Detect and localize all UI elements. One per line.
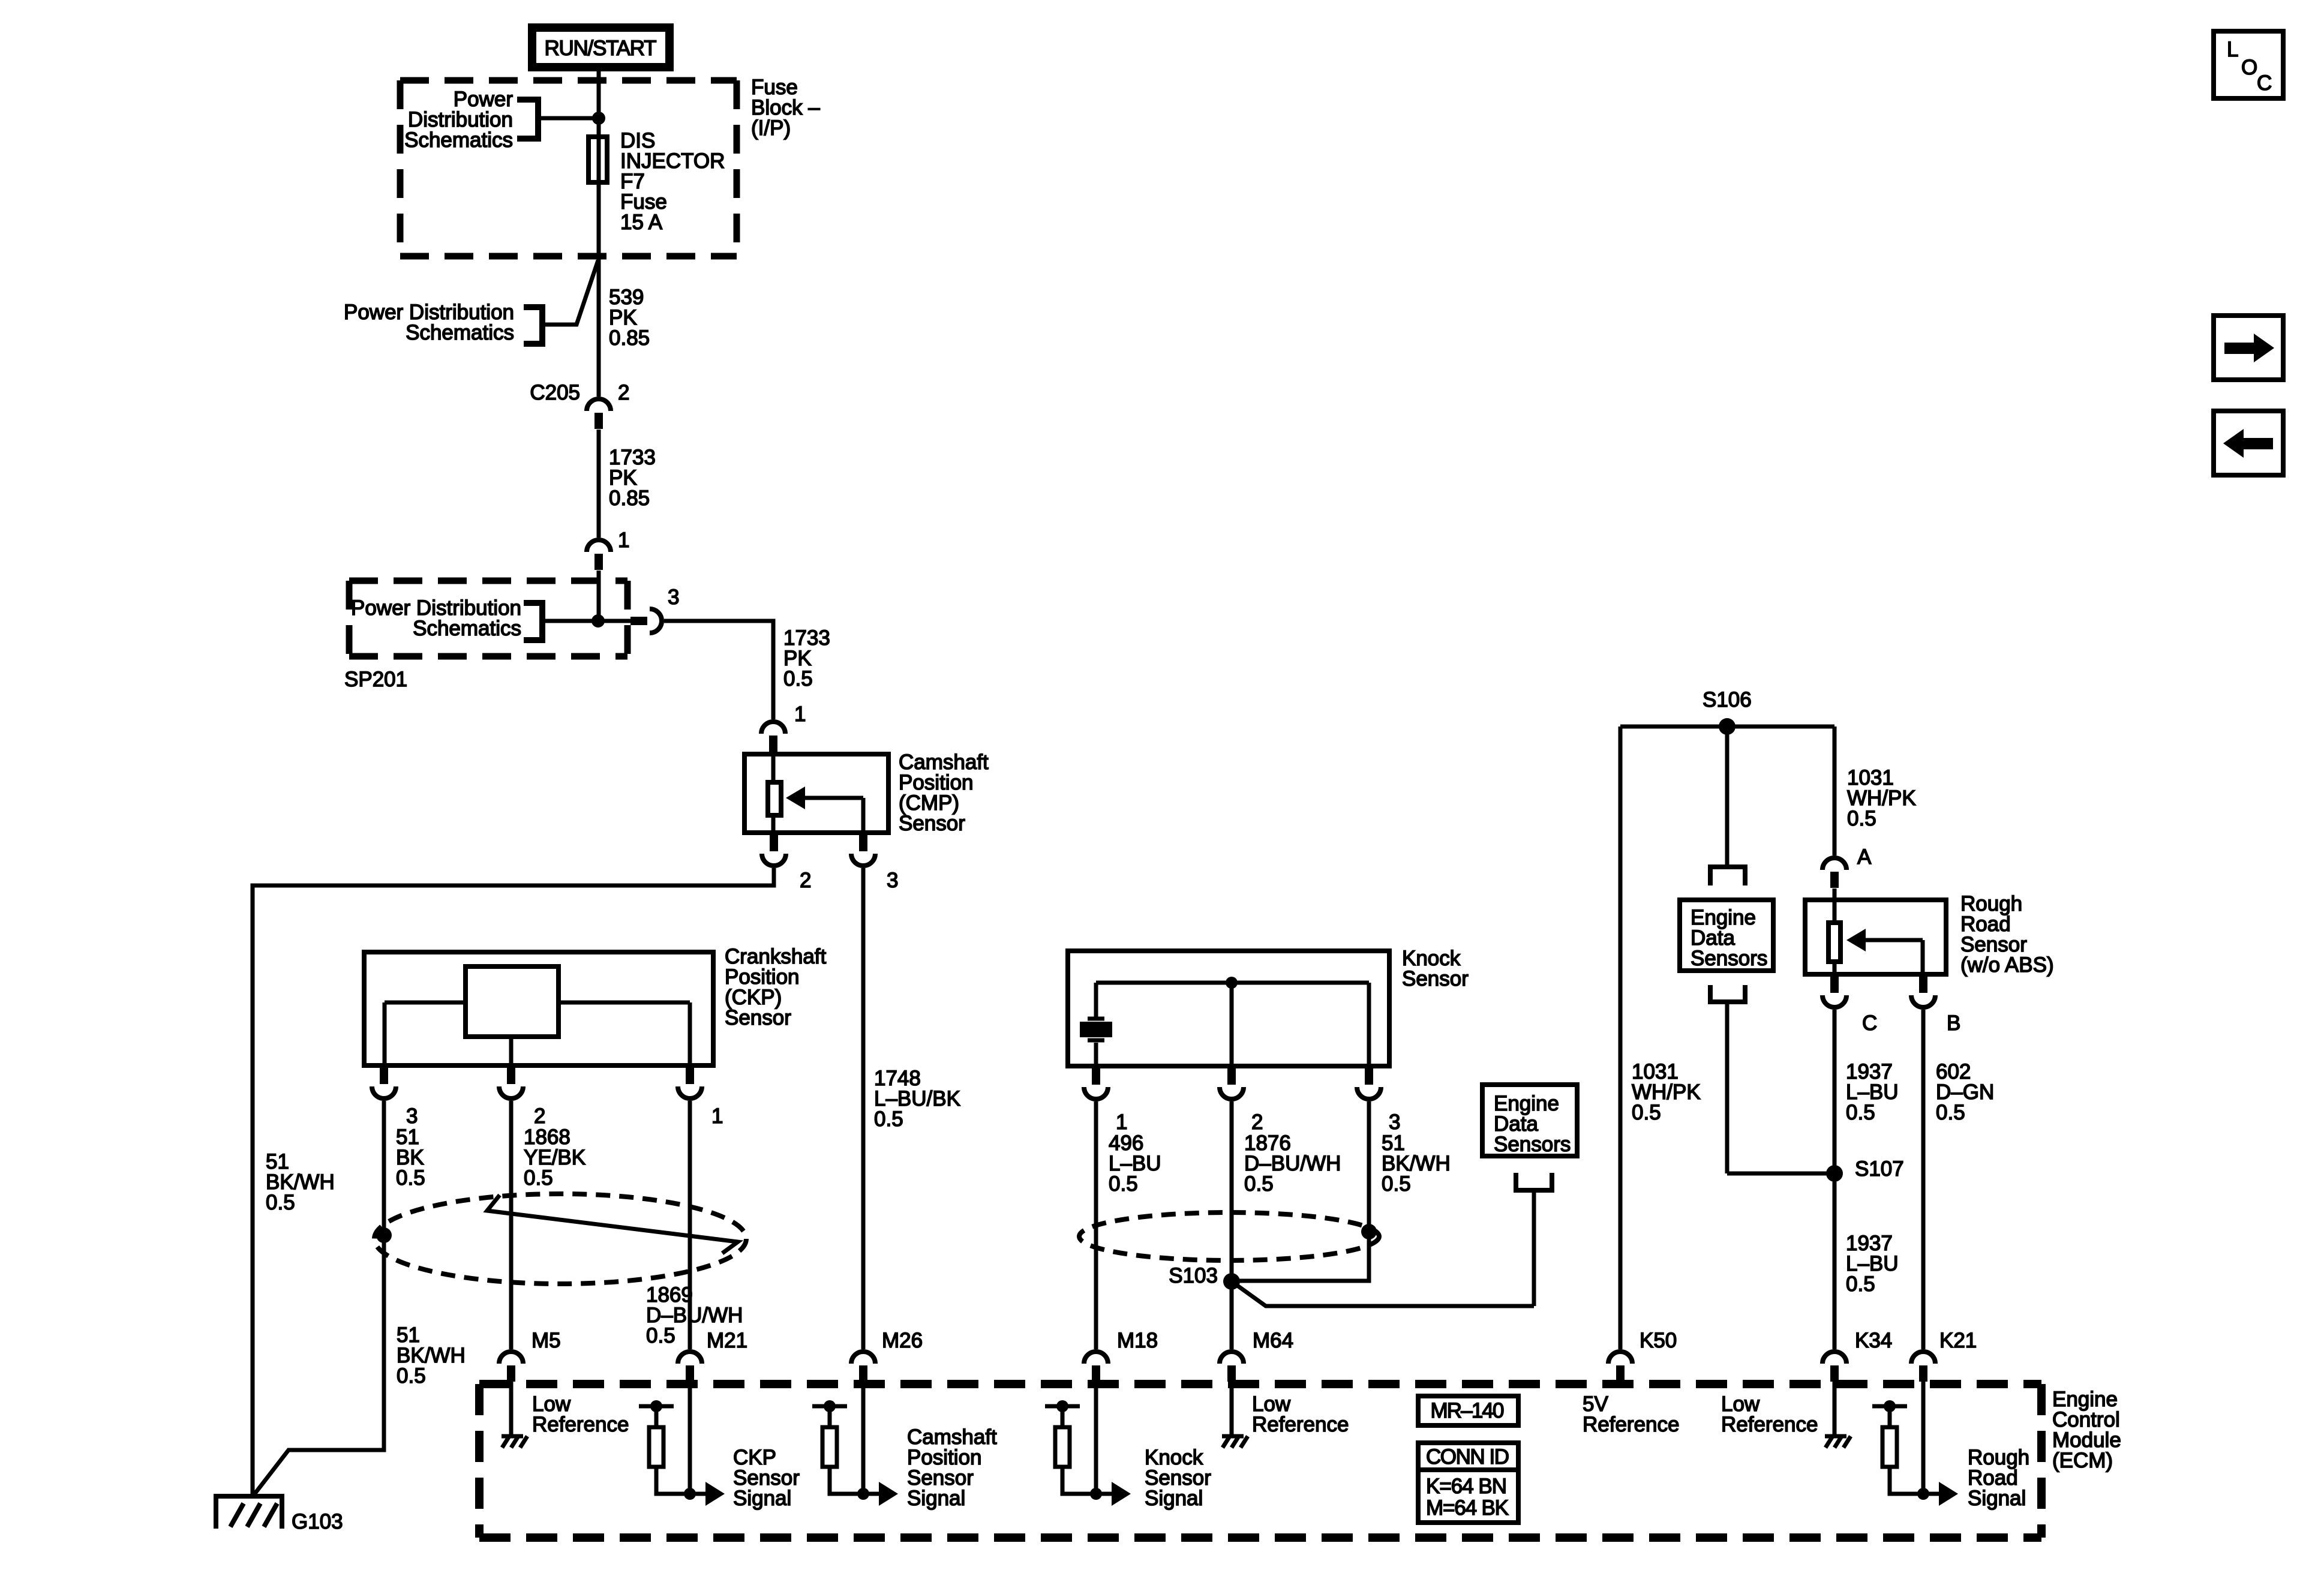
label pin 3 (887, 869, 898, 892)
label wire 602 D-GN 0.5 (1936, 1060, 1994, 1124)
ground: K34 low reference (1825, 1382, 1851, 1448)
label pin 2 (534, 1104, 545, 1128)
label wire 1031 WH/PK 0.5 (K50) (1632, 1060, 1701, 1124)
label K50 (1640, 1329, 1677, 1352)
CMP internal sensing element (resistor) (768, 754, 781, 835)
label pin 3 (668, 586, 679, 609)
svg-text:(I/P): (I/P) (751, 116, 791, 140)
label M26 (882, 1329, 923, 1352)
label Fuse Block - (I/P) (751, 76, 820, 140)
Fuse Block dashed box (400, 80, 737, 256)
label pin 2 (618, 381, 629, 404)
svg-text:RUN/START: RUN/START (545, 37, 657, 60)
label Rough Road Sensor (w/o ABS) (1960, 892, 2054, 977)
label wire 1937 L-BU 0.5 (lower) (1846, 1232, 1899, 1296)
knock internal bus (1096, 983, 1369, 1066)
connector ECM pin K34 (1822, 1352, 1846, 1382)
connector CMP pin 2 (762, 835, 786, 866)
svg-text:S107: S107 (1855, 1157, 1904, 1181)
Camshaft Position (CMP) Sensor box (744, 754, 888, 833)
MR-140 connector box (1418, 1396, 1518, 1425)
bracket: Power Distribution Schematics (SP201) (524, 603, 542, 640)
wire from RUN/START through fuse F7 (597, 71, 601, 397)
Knock Sensor box (1068, 951, 1389, 1066)
Engine Control Module dashed box (479, 1384, 2041, 1538)
svg-text:0.5: 0.5 (524, 1166, 553, 1190)
svg-text:O: O (2241, 56, 2257, 79)
ECM input resistor + arrow: camshaft position sensor signal (861, 1382, 866, 1494)
wire tap to Power Distribution Schematics (538, 116, 599, 121)
svg-text:0.5: 0.5 (646, 1324, 675, 1347)
connector CMP pin 3 (851, 835, 875, 866)
wire S106 to Engine Data Sensors (1725, 727, 1730, 864)
svg-text:0.5: 0.5 (266, 1191, 295, 1214)
connector fork above Engine Data Sensors (1708, 867, 1747, 885)
svg-text:3: 3 (406, 1104, 418, 1128)
connector CKP pin 1 (678, 1068, 702, 1098)
svg-text:0.5: 0.5 (1847, 807, 1876, 830)
wire S106 bus (1620, 725, 1834, 729)
label Rough Road Signal (1968, 1446, 2029, 1510)
wire 1733 PK 0.85 (597, 430, 601, 538)
label C205 (530, 381, 580, 404)
knock piezo element (1080, 983, 1112, 1066)
wire CKP pin2 to M5 (509, 1101, 514, 1349)
label wire 1868 YE/BK 0.5 (524, 1125, 585, 1190)
svg-text:0.5: 0.5 (1846, 1101, 1875, 1124)
label pin 2 (800, 869, 811, 892)
label M5 (532, 1329, 561, 1352)
label wire 1733 PK 0.85 (609, 446, 656, 510)
svg-text:Reference: Reference (1583, 1413, 1679, 1436)
connector pin 3 (horizontal) (630, 609, 662, 633)
label wire 1876 D-BU/WH 0.5 (1244, 1131, 1341, 1196)
label S106 (1703, 688, 1752, 712)
svg-text:0.5: 0.5 (396, 1166, 425, 1190)
svg-text:2: 2 (1251, 1110, 1263, 1134)
connector fork below Engine Data Sensors (knock side) (1514, 1173, 1554, 1306)
label pin 1 (711, 1104, 723, 1128)
wire S103 to Engine Data Sensors (1232, 1281, 1534, 1306)
label pin 2 (1251, 1110, 1263, 1134)
label wire 51 BK/WH 0.5 (left) (266, 1150, 335, 1214)
svg-text:Schematics: Schematics (413, 617, 521, 640)
label Low Reference (K34) (1721, 1392, 1818, 1436)
connector SP201 pin 1 (587, 540, 611, 570)
svg-text:Reference: Reference (1721, 1413, 1818, 1436)
svg-text:MR–140: MR–140 (1431, 1399, 1505, 1422)
ground: M64 low reference (1222, 1382, 1248, 1448)
svg-text:0.5: 0.5 (1846, 1272, 1875, 1296)
label Power Distribution Schematics (lower) (344, 301, 514, 344)
RUN/START power feed box (532, 28, 669, 67)
svg-text:0.5: 0.5 (1244, 1172, 1274, 1196)
label Crankshaft Position (CKP) Sensor (725, 945, 827, 1029)
svg-text:3: 3 (668, 586, 679, 609)
svg-text:0.5: 0.5 (1632, 1101, 1661, 1124)
Crankshaft Position (CKP) Sensor box (364, 952, 713, 1065)
label Knock Sensor (1402, 947, 1469, 990)
wire knock pin1 to M18 (1094, 1101, 1098, 1349)
connector ECM pin K50 (1608, 1352, 1632, 1382)
label pin B (1947, 1011, 1960, 1035)
svg-text:Sensor: Sensor (1402, 967, 1469, 990)
label Low Reference (M5) (532, 1392, 629, 1436)
connector fork below Engine Data Sensors (right) (1708, 985, 1747, 1173)
svg-text:Signal: Signal (733, 1487, 791, 1510)
svg-text:K34: K34 (1855, 1329, 1892, 1352)
twisted pair ellipse (knock harness) (1079, 1212, 1379, 1260)
label wire 1031 WH/PK 0.5 (A) (1847, 766, 1916, 830)
label wire 539 PK 0.85 (609, 286, 650, 350)
svg-text:M21: M21 (707, 1329, 747, 1352)
svg-text:1: 1 (1116, 1110, 1127, 1134)
svg-text:K21: K21 (1939, 1329, 1977, 1352)
ECM input resistor + arrow: rough road signal (1921, 1382, 1926, 1494)
ECM input resistor + arrow: knock sensor signal (1094, 1382, 1098, 1494)
label S107 (1855, 1157, 1904, 1181)
label wire 1733 PK 0.5 (783, 626, 830, 691)
label M21 (707, 1329, 747, 1352)
connector ECM pin M21 (678, 1352, 702, 1382)
label pin 3 (406, 1104, 418, 1128)
svg-text:0.5: 0.5 (1936, 1101, 1965, 1124)
label wire 51 BK 0.5 (396, 1125, 425, 1190)
svg-text:SP201: SP201 (344, 668, 407, 691)
node: splice S107 (1826, 1165, 1843, 1182)
connector ECM pin M64 (1220, 1352, 1244, 1382)
LOC reference box (2214, 31, 2283, 98)
svg-text:Signal: Signal (1145, 1487, 1203, 1510)
svg-text:M=64 BK: M=64 BK (1426, 1496, 1509, 1520)
svg-text:M18: M18 (1117, 1329, 1158, 1352)
wire 1937 L-BU 0.5 C to K34 (1833, 1010, 1837, 1349)
fuse F7 DIS INJECTOR 15A (588, 137, 607, 182)
wire knock pin3 to S103 (1232, 1101, 1369, 1281)
label K34 (1855, 1329, 1892, 1352)
prev-page arrow box (left) (2214, 411, 2283, 475)
label wire 496 L-BU 0.5 (1109, 1131, 1161, 1196)
wire 1869 D-BU/WH 0.5 CKP pin1 to M21 (688, 1101, 692, 1349)
label Engine Data Sensors (knock side) (1494, 1092, 1571, 1156)
svg-text:Signal: Signal (907, 1487, 965, 1510)
label M64 (1253, 1329, 1293, 1352)
svg-text:M26: M26 (882, 1329, 923, 1352)
bracket: Power Distribution Schematics (upper) (517, 100, 538, 139)
rough road internal element (resistor) (1828, 888, 1840, 977)
svg-text:G103: G103 (292, 1510, 343, 1533)
connector knock pin 3 (1357, 1068, 1381, 1099)
twisted pair ellipse (CKP harness) (374, 1194, 746, 1284)
svg-text:S103: S103 (1169, 1264, 1218, 1287)
label Knock Sensor Signal (1145, 1446, 1211, 1510)
wire EDS to S107 (1727, 1172, 1834, 1176)
label Low Reference (M64) (1252, 1392, 1349, 1436)
label pin 1 (1116, 1110, 1127, 1134)
bracket: Power Distribution Schematics (lower) (524, 307, 542, 344)
node: knock internal junction (1226, 977, 1238, 989)
svg-text:B: B (1947, 1011, 1960, 1035)
connector ECM pin M18 (1084, 1352, 1108, 1382)
label pin C (1862, 1011, 1877, 1035)
connector rough road pin B (1911, 977, 1935, 1007)
svg-text:1: 1 (711, 1104, 723, 1128)
svg-text:Reference: Reference (1252, 1413, 1349, 1436)
label wire 1937 L-BU 0.5 (upper) (1846, 1060, 1899, 1124)
node: splice S103 (1223, 1273, 1240, 1290)
Rough Road Sensor box (1805, 900, 1946, 974)
svg-text:Sensors: Sensors (1691, 947, 1767, 970)
connector CKP pin 3 (372, 1068, 396, 1098)
label M18 (1117, 1329, 1158, 1352)
label SP201 (344, 668, 407, 691)
label Engine Data Sensors (right) (1691, 906, 1767, 970)
label Power Distribution Schematics (upper) (404, 88, 513, 152)
wire 1748 L-BU/BK 0.5 CMP pin3 to M26 (861, 868, 866, 1349)
SP201 dashed box (349, 581, 627, 656)
label CKP Sensor Signal (733, 1446, 800, 1510)
connector CKP pin 2 (499, 1068, 523, 1098)
Engine Data Sensors box (right) (1680, 900, 1773, 971)
connector knock pin 2 (1220, 1068, 1244, 1099)
label DIS INJECTOR F7 Fuse 15 A (620, 129, 725, 234)
connector C205 pin 2 (587, 399, 611, 429)
svg-text:0.5: 0.5 (874, 1107, 903, 1131)
wire 602 D-GN 0.5 B to K21 (1921, 1010, 1926, 1349)
label pin A (1857, 845, 1872, 869)
svg-text:0.5: 0.5 (1109, 1172, 1138, 1196)
label K21 (1939, 1329, 1977, 1352)
CKP internal wiring (385, 1002, 690, 1065)
node: dot on knock ground wire (1361, 1224, 1377, 1239)
svg-text:0.5: 0.5 (1382, 1172, 1411, 1196)
next-page arrow box (right) (2214, 316, 2283, 380)
svg-text:Signal: Signal (1968, 1487, 2026, 1510)
connector rough road pin C (1822, 977, 1846, 1007)
svg-text:0.5: 0.5 (783, 667, 813, 691)
ground G103 (216, 1496, 282, 1529)
wire into SP201 splice (597, 571, 601, 621)
label Camshaft Position (CMP) Sensor (899, 751, 989, 835)
svg-text:L: L (2227, 38, 2238, 61)
label pin 1 (794, 703, 806, 726)
svg-text:(w/o ABS): (w/o ABS) (1960, 953, 2054, 977)
CKP internal element box (466, 966, 559, 1037)
svg-text:K50: K50 (1640, 1329, 1677, 1352)
wire tap to Power Distribution Schematics (SP201) (542, 619, 598, 623)
svg-text:2: 2 (534, 1104, 545, 1128)
Engine Data Sensors box (knock side) (1482, 1085, 1577, 1156)
svg-text:Schematics: Schematics (404, 128, 513, 152)
svg-text:S106: S106 (1703, 688, 1752, 712)
connector ECM pin K21 (1911, 1352, 1935, 1382)
connector ECM pin M5 (499, 1352, 523, 1382)
label wire 1869 D-BU/WH 0.5 (646, 1283, 743, 1347)
connector rough road pin A (1822, 858, 1846, 888)
wire 1733 PK 0.5 to CMP sensor (664, 621, 773, 719)
node: splice S106 (1719, 718, 1736, 735)
connector ECM pin M26 (851, 1352, 875, 1382)
label 5V Reference (1583, 1392, 1679, 1436)
connector CMP pin 1 (761, 722, 785, 752)
label Camshaft Position Sensor Signal (907, 1425, 997, 1510)
svg-text:2: 2 (800, 869, 811, 892)
svg-text:Reference: Reference (532, 1413, 629, 1436)
wire tap (diagonal) to Power Distribution Schematics (lower) (542, 260, 598, 325)
label S103 (1169, 1264, 1218, 1287)
label wire 51 BK/WH 0.5 (lower) (397, 1323, 466, 1388)
label pin 1 (618, 529, 629, 552)
node: splice dot on ground wire (376, 1227, 392, 1243)
svg-text:0.5: 0.5 (397, 1364, 426, 1388)
connector knock pin 1 (1084, 1068, 1108, 1099)
wire CMP pin2 low reference to G103 (253, 868, 774, 1496)
label wire 1748 L-BU/BK 0.5 (874, 1067, 960, 1131)
svg-text:Sensors: Sensors (1494, 1133, 1571, 1156)
CMP internal arrow to element (786, 786, 863, 833)
label Power Distribution Schematics (SP201) (351, 596, 521, 640)
svg-text:1: 1 (618, 529, 629, 552)
ECM input resistor + arrow: CKP sensor signal (688, 1382, 692, 1494)
label G103 (292, 1510, 343, 1533)
svg-text:A: A (1857, 845, 1872, 869)
svg-text:0.85: 0.85 (609, 326, 650, 350)
svg-text:C: C (1862, 1011, 1877, 1035)
label pin 3 (1389, 1110, 1400, 1134)
label Engine Control Module (ECM) (2052, 1388, 2121, 1472)
svg-text:K=64 BN: K=64 BN (1426, 1475, 1507, 1498)
svg-text:(ECM): (ECM) (2052, 1449, 2113, 1472)
svg-text:15 A: 15 A (620, 211, 663, 234)
svg-text:Sensor: Sensor (725, 1006, 791, 1029)
svg-text:M5: M5 (532, 1329, 561, 1352)
wire S106 to K50 (1619, 727, 1623, 1349)
wire from splice to connector pin 3 (598, 619, 630, 623)
svg-text:Sensor: Sensor (899, 812, 965, 835)
wire knock pin2 through S103 to M64 (1230, 1101, 1234, 1349)
svg-text:C205: C205 (530, 381, 580, 404)
label wire 51 BK/WH 0.5 (knock) (1382, 1131, 1451, 1196)
svg-text:M64: M64 (1253, 1329, 1293, 1352)
wire 1031 WH/PK 0.5 S106 to rough road A (1833, 727, 1837, 855)
rough road internal arrow (1846, 929, 1923, 974)
node: SP201 splice dot (591, 614, 605, 628)
svg-text:0.85: 0.85 (609, 487, 650, 510)
twisted pair arrow (487, 1195, 738, 1253)
svg-text:1: 1 (794, 703, 806, 726)
wire CKP pin3 ground to G103 (254, 1101, 384, 1495)
svg-text:3: 3 (1389, 1110, 1400, 1134)
ground: M5 low reference (502, 1382, 527, 1448)
svg-text:C: C (2257, 71, 2272, 95)
svg-text:3: 3 (887, 869, 898, 892)
svg-text:2: 2 (618, 381, 629, 404)
node: junction dot in fuse block (592, 112, 605, 125)
svg-text:CONN ID: CONN ID (1426, 1445, 1509, 1469)
CONN ID box (1418, 1443, 1518, 1523)
svg-text:Schematics: Schematics (406, 321, 514, 344)
